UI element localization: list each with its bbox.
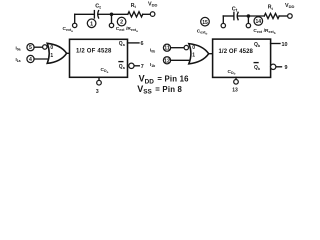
svg-text:VDD: VDD	[285, 3, 294, 9]
svg-text:3: 3	[96, 89, 99, 95]
terminal Cext/Rext a	[109, 23, 113, 27]
svg-text:Ct: Ct	[95, 4, 101, 10]
wire junction to resistor	[112, 13, 128, 15]
svg-text:10: 10	[282, 42, 288, 48]
pin number 5	[27, 44, 34, 52]
output label Qb-bar	[254, 63, 261, 71]
svg-text:Cext/Rextb: Cext/Rextb	[253, 28, 275, 35]
terminal Cext b	[221, 23, 225, 27]
inverter bubble Qa-bar output	[129, 63, 134, 68]
pin number 2	[117, 17, 126, 26]
pin number 4	[27, 55, 34, 63]
wire bubble to pin 7	[134, 65, 139, 67]
pin number 12	[163, 57, 170, 65]
power VDD terminal (a)	[150, 12, 155, 17]
output label Qa-bar	[119, 62, 126, 70]
inverter bubble on input a	[43, 45, 47, 49]
wire Qa to pin 6	[128, 42, 140, 44]
pin number 14	[254, 17, 263, 26]
capacitor Ct (a)	[94, 11, 111, 18]
wire pin12 to gate	[171, 59, 191, 61]
svg-text:6: 6	[141, 41, 144, 47]
block U2 1/2 of 4528 (b)	[213, 39, 271, 77]
svg-text:11: 11	[164, 46, 170, 52]
wire pin11 to bubble	[171, 47, 185, 49]
svg-text:13: 13	[232, 88, 238, 94]
svg-text:7: 7	[141, 64, 144, 70]
inverter bubble on input b	[184, 45, 188, 49]
wire pin5 to bubble	[34, 46, 43, 48]
terminal CDb	[234, 80, 239, 85]
node junction a (Cext/Rext node)	[110, 13, 114, 17]
terminal Cext a	[73, 23, 77, 27]
wire CDa stub	[98, 77, 100, 80]
wire Qb to pin 10	[271, 43, 280, 45]
svg-text:Ct: Ct	[232, 6, 238, 12]
svg-text:9: 9	[285, 65, 288, 71]
terminal Cext/Rext b	[246, 23, 250, 27]
wire bubble to pin 9	[276, 66, 281, 68]
resistor Rt (a)	[128, 12, 143, 17]
pin number 1	[87, 19, 96, 28]
wire gate to block b	[209, 53, 213, 55]
wire junction to resistor b	[248, 15, 264, 17]
pin number 11	[163, 44, 170, 52]
or-gate U1a	[47, 43, 66, 63]
wire top rail b	[223, 15, 233, 17]
wire pin4 to gate	[34, 58, 49, 60]
svg-text:0: 0	[192, 45, 195, 51]
svg-text:1/2 OF 4528: 1/2 OF 4528	[76, 49, 112, 55]
svg-text:VDD: VDD	[148, 1, 157, 7]
wire CDb stub	[235, 77, 237, 79]
svg-text:Cext/Rexta: Cext/Rexta	[116, 26, 138, 33]
svg-text:2: 2	[120, 20, 123, 26]
svg-text:Rt: Rt	[131, 3, 137, 9]
svg-text:1: 1	[50, 53, 53, 59]
pin number 15	[201, 17, 210, 26]
svg-text:0: 0	[50, 45, 53, 51]
wire drop to Cext/Rext pin b	[247, 16, 249, 23]
svg-text:12: 12	[164, 58, 170, 64]
wire drop to Cext/Rext pin a	[111, 14, 113, 23]
svg-text:4: 4	[29, 57, 32, 63]
capacitor Ct (b)	[234, 12, 249, 19]
svg-text:1: 1	[90, 21, 93, 27]
terminal CDa	[97, 80, 102, 85]
power VDD terminal (b)	[288, 14, 293, 19]
block U1 1/2 of 4528 (a)	[70, 39, 128, 77]
inverter bubble Qb-bar output	[271, 64, 276, 69]
svg-text:14: 14	[256, 19, 262, 25]
wire resistor to VDD	[143, 13, 151, 15]
svg-text:1: 1	[192, 52, 195, 58]
wire resistor to VDD b	[279, 15, 287, 17]
svg-text:Rt: Rt	[268, 5, 274, 11]
resistor Rt (b)	[264, 13, 279, 18]
wire drop to Cext pin b	[222, 16, 224, 23]
wire drop to Cext pin a	[74, 14, 76, 23]
wire gate to block a	[67, 52, 70, 54]
or-gate U1b	[189, 44, 209, 64]
svg-text:15: 15	[202, 20, 208, 26]
node junction b (Cext/Rext node)	[247, 14, 251, 18]
wire top rail a	[75, 13, 95, 15]
svg-text:5: 5	[29, 45, 32, 51]
svg-text:1/2 OF 4528: 1/2 OF 4528	[219, 49, 254, 55]
